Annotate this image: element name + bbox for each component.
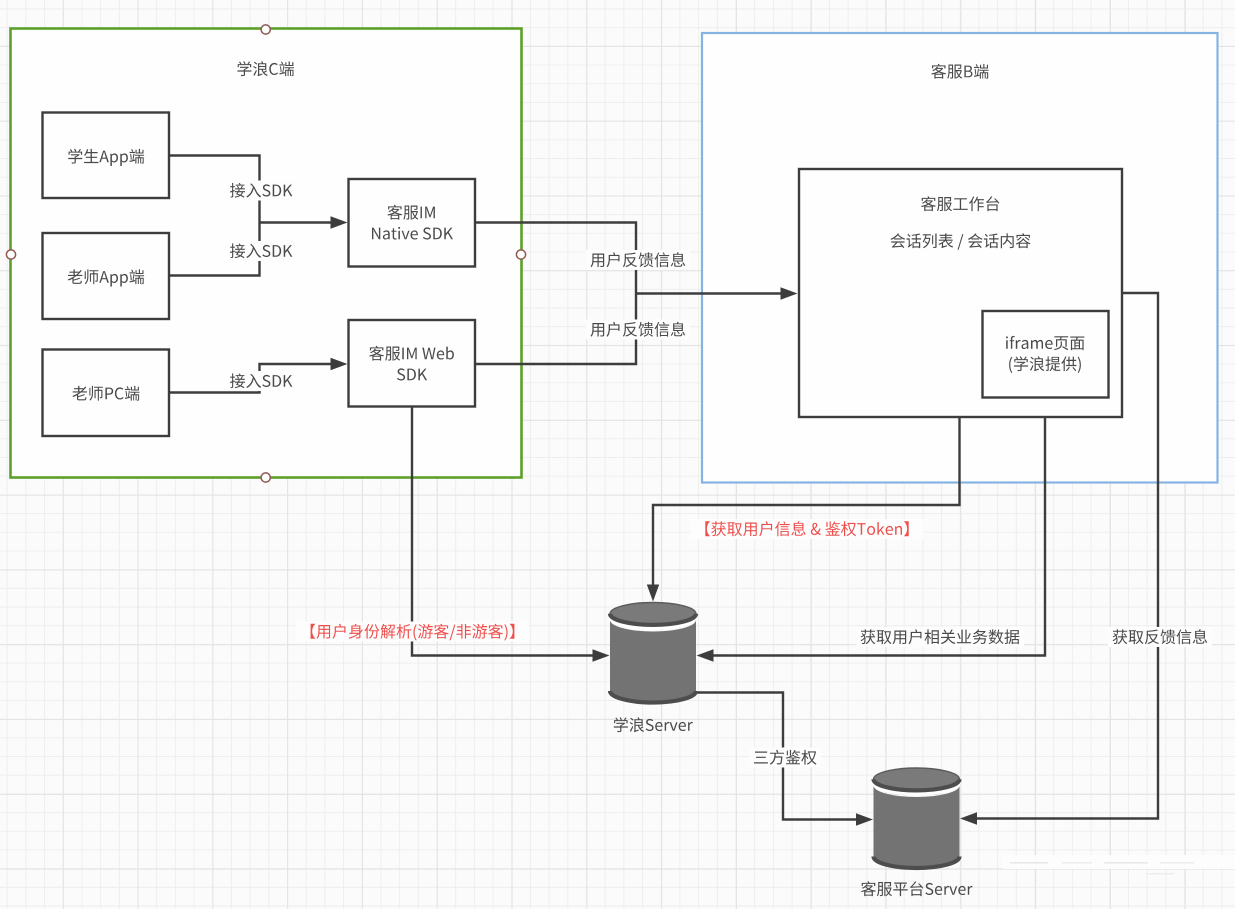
arrowhead into 客服工作台 [781,287,798,299]
wire 客服IM Web SDK→学浪Server (用户身份解析) [412,406,593,656]
handle left of green box [6,250,15,259]
edge label 接入SDK #1 [226,181,297,201]
arrowhead into 客服平台Server left [856,813,873,825]
edge label 【获取用户信息 & 鉴权Token】 [691,519,924,539]
edge label 用户反馈信息 #2 [586,320,690,340]
arrowhead into 客服平台Server right [960,812,977,824]
edge label 【用户身份解析(游客/非游客)】 [296,622,529,642]
arrowhead into 客服IM Web SDK [331,358,348,370]
node label 客服平台Server [861,881,972,896]
label 客服IM Web (line1) [369,346,454,361]
edge label 接入SDK #2 [226,241,297,261]
label Native SDK (line2) [372,227,453,240]
title 客服B端 [931,64,988,79]
watermark remnant band [1003,855,1235,874]
label 客服IM (line1) [387,205,435,220]
wire merge→客服工作台 [636,292,781,294]
wire 学生App端→junction [169,156,260,223]
wire 客服工作台→客服平台Server (获取反馈信息) [977,293,1159,819]
box 老师PC端 [43,350,170,437]
edge label 接入SDK #3 [226,371,297,391]
arrowhead into 学浪Server top [647,585,659,602]
wire 学浪Server→客服平台Server (三方鉴权) [696,693,857,820]
arrowhead into 客服IM Native SDK [331,216,348,228]
container 客服B端 (blue group box) [702,33,1218,483]
label (学浪提供) (line2) [1009,356,1081,373]
arrowhead into 学浪Server left [593,649,610,661]
node label 学浪Server [614,717,693,732]
database cylinder 客服平台Server [874,768,960,868]
wire iframe页面→学浪Server (业务数据) [713,398,1045,656]
label SDK (line2) [397,368,427,380]
label 客服工作台 [921,196,999,211]
label 老师PC端 [72,386,139,401]
box iframe页面 [983,311,1109,398]
label 老师App端 [68,269,144,286]
box 客服IM Web SDK [349,320,476,407]
handle right of green box [516,250,525,259]
box 学生App端 [43,113,170,199]
box 客服IM Native SDK [349,179,476,267]
wire 客服IM Native SDK→merge [475,223,636,294]
title 学浪C端 [237,61,294,76]
handle top of green box [261,25,270,34]
label 学生App端 [68,149,144,166]
arrowhead into 学浪Server right [697,649,714,661]
label iframe页面 (line1) [1006,336,1084,350]
wire 客服工作台→学浪Server (获取用户信息) [653,417,960,586]
box 客服工作台 [799,169,1122,417]
database cylinder 学浪Server [610,603,696,703]
wire 老师App端→junction [169,223,260,276]
edge label 用户反馈信息 #1 [586,250,690,270]
wire junction→客服IM Native SDK [260,221,332,223]
wire 客服IM Web SDK→merge [475,294,636,365]
edge label 获取反馈信息 [1108,627,1212,647]
edge label 获取用户相关业务数据 [856,627,1024,647]
label 会话列表 / 会话内容 [891,233,1031,249]
box 老师App端 [43,233,170,319]
container 学浪C端 (green group box) [11,29,522,478]
edge label 三方鉴权 [749,748,821,768]
wire 老师PC端→客服IM Web SDK [169,364,331,393]
handle bottom of green box [261,473,270,482]
